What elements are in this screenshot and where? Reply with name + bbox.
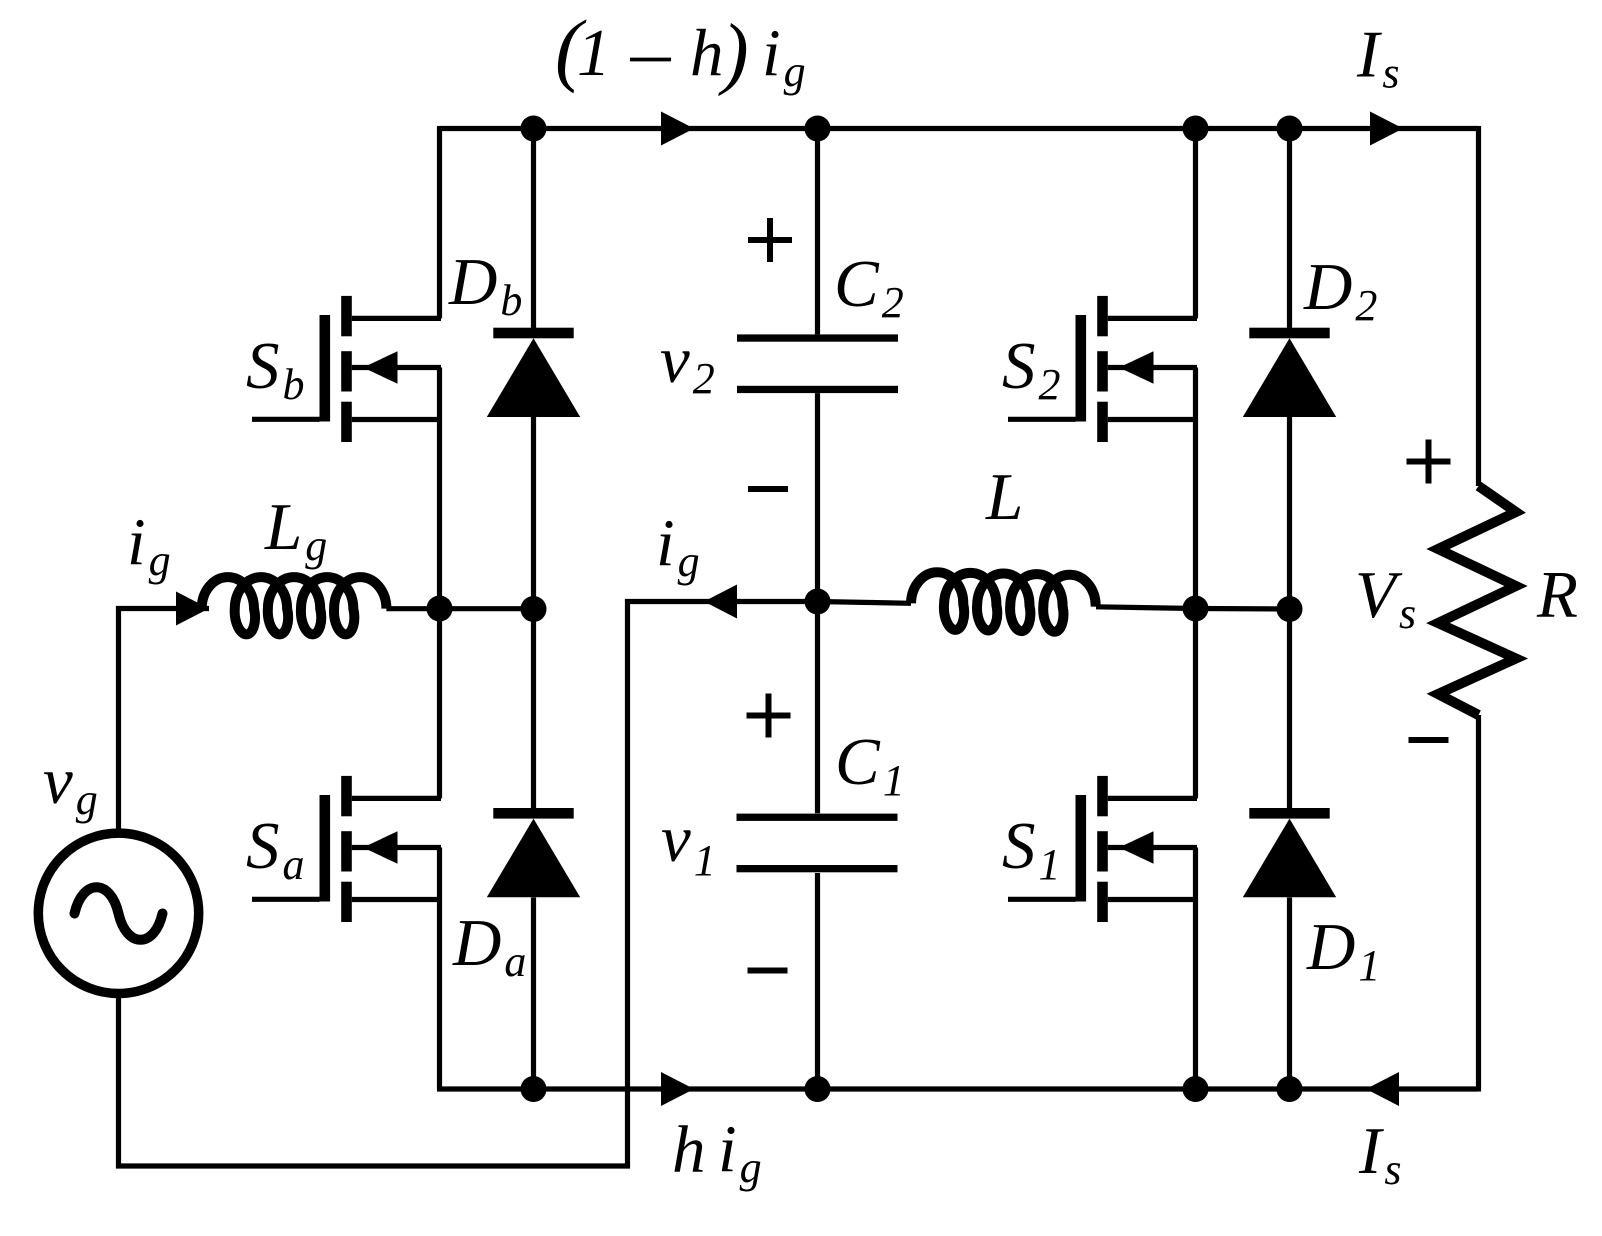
wire Db leg upper xyxy=(531,129,536,334)
wire node B to Da cathode xyxy=(531,609,536,813)
wire S2 source to node C xyxy=(1193,368,1198,609)
wire node A to Sa drain xyxy=(437,609,442,799)
node M: ig / C branch xyxy=(805,589,831,615)
arrow h ig on bottom bus xyxy=(661,1072,694,1106)
arrow Is on top bus xyxy=(1370,112,1403,146)
wire node C to node D xyxy=(1196,606,1290,612)
node A: Lg / S leg xyxy=(427,596,453,622)
wire node D to D1 cathode xyxy=(1287,609,1292,813)
vg sine symbol xyxy=(75,887,163,940)
wire Lg to node A and node B xyxy=(386,606,533,611)
node: top bus / C2 xyxy=(805,116,831,142)
arrow Is on bottom bus xyxy=(1366,1072,1399,1106)
plus sign C2 xyxy=(748,218,792,262)
node: bottom bus / C1 xyxy=(805,1076,831,1102)
node C: L / S2S1 leg xyxy=(1183,596,1209,622)
wire L to node C xyxy=(1096,607,1196,609)
node: top bus / S2 xyxy=(1183,116,1209,142)
node: top bus / D2 xyxy=(1277,116,1303,142)
wire node M to L xyxy=(818,602,912,604)
capacitor C1 xyxy=(737,814,898,873)
wire left leg upper (top bus to Sb drain) xyxy=(437,126,442,318)
diode D2 xyxy=(1243,328,1336,417)
wire right leg upper (top bus to R) xyxy=(1476,126,1481,486)
wire right leg lower (R to bottom bus) xyxy=(1476,715,1481,1092)
minus sign C1 xyxy=(748,968,788,974)
wire C2 bottom to node M xyxy=(815,393,820,601)
node: top bus / Db xyxy=(521,116,547,142)
wire D2 leg upper xyxy=(1287,129,1292,334)
wire Db anode to node B xyxy=(531,417,536,609)
inductor Lg coil xyxy=(202,577,387,634)
plus sign C1 xyxy=(747,694,791,738)
arrow (1-h)ig on top bus xyxy=(661,112,694,146)
arrow ig into Lg xyxy=(176,592,209,626)
svg-text:h: h xyxy=(672,1113,706,1187)
minus sign C2 xyxy=(748,486,788,492)
transistor S2 (switch S_2) xyxy=(1008,296,1197,442)
wire vg to Lg xyxy=(119,609,210,834)
wire C2 top branch xyxy=(815,129,820,335)
node: bottom bus / D1 xyxy=(1277,1076,1303,1102)
voltage source vg (AC) xyxy=(38,833,198,993)
node: bottom bus / Da xyxy=(521,1076,547,1102)
wire Da anode to bottom bus xyxy=(531,898,536,1090)
wire top bus xyxy=(440,126,1479,131)
node D: mid / D2D1 leg xyxy=(1277,596,1303,622)
plus sign R xyxy=(1407,440,1451,484)
svg-text:1: 1 xyxy=(577,16,611,90)
transistor S1 (switch S_1) xyxy=(1008,776,1197,922)
svg-text:): ) xyxy=(718,9,749,97)
wire D2 anode to node D xyxy=(1287,417,1292,609)
arrow ig mid wire xyxy=(704,585,737,619)
inductor L coil xyxy=(911,572,1097,633)
wire S2 leg upper xyxy=(1193,129,1198,319)
transistor Sa (switch S_a) xyxy=(252,776,441,922)
svg-text:L: L xyxy=(985,460,1023,534)
wire node C to S1 drain xyxy=(1193,609,1198,799)
svg-text:R: R xyxy=(1536,558,1578,632)
wire vg bottom return xyxy=(119,602,711,1167)
wire Sb source to node A xyxy=(437,368,442,609)
wire S1 source to bottom bus xyxy=(1193,848,1198,1090)
wire C1 bottom to bottom bus xyxy=(815,873,820,1089)
capacitor C2 xyxy=(737,334,898,393)
diode D1 xyxy=(1243,808,1336,897)
transistor Sb (switch S_b) xyxy=(252,296,441,442)
wire Sa source to bottom bus xyxy=(437,848,442,1090)
node B: Lg / D leg xyxy=(521,596,547,622)
diode Da xyxy=(487,808,580,897)
wire ig mid to node M xyxy=(737,599,818,604)
minus sign R xyxy=(1409,737,1449,743)
node: bottom bus / S1 xyxy=(1183,1076,1209,1102)
svg-text:h: h xyxy=(690,16,724,90)
resistor R xyxy=(1438,486,1516,715)
diode Db xyxy=(487,328,580,417)
wire bottom bus xyxy=(437,1086,1479,1091)
wire D1 anode to bottom bus xyxy=(1287,898,1292,1090)
wire node M to C1 top xyxy=(815,602,820,814)
